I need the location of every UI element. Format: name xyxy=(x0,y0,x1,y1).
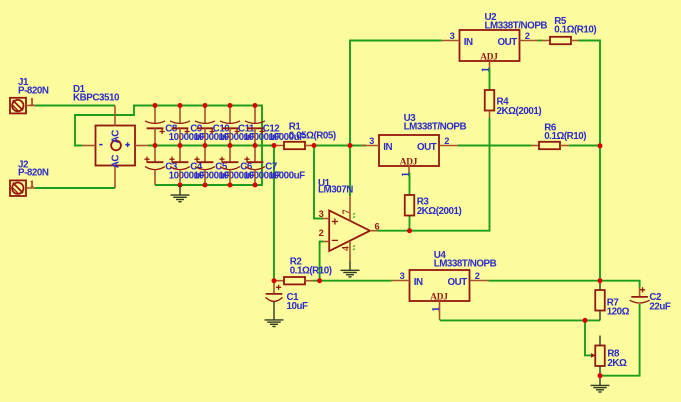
svg-text:IN: IN xyxy=(383,142,392,153)
svg-text:IN: IN xyxy=(464,37,473,48)
svg-text:2KΩ: 2KΩ xyxy=(607,358,627,369)
svg-text:0.1Ω(R10): 0.1Ω(R10) xyxy=(544,131,586,142)
svg-text:1: 1 xyxy=(30,97,35,108)
svg-text:1: 1 xyxy=(481,67,492,72)
svg-text:AC: AC xyxy=(111,155,122,169)
svg-text:OUT: OUT xyxy=(497,37,517,48)
svg-text:7: 7 xyxy=(341,209,352,214)
svg-text:0.1Ω(R10): 0.1Ω(R10) xyxy=(290,266,332,277)
svg-text:OUT: OUT xyxy=(417,142,437,153)
svg-text:1: 1 xyxy=(431,307,442,312)
svg-text:2KΩ(2001): 2KΩ(2001) xyxy=(497,106,542,117)
svg-text:LM338T/NOPB: LM338T/NOPB xyxy=(434,259,497,270)
svg-text:120Ω: 120Ω xyxy=(607,307,630,318)
svg-text:3: 3 xyxy=(319,209,324,219)
svg-text:6: 6 xyxy=(375,221,380,231)
svg-text:4: 4 xyxy=(340,246,351,251)
svg-text:2: 2 xyxy=(319,228,324,238)
svg-text:22uF: 22uF xyxy=(649,301,671,312)
svg-text:LM307N: LM307N xyxy=(318,185,353,196)
svg-text:10uF: 10uF xyxy=(287,301,309,312)
svg-text:1: 1 xyxy=(30,179,35,190)
svg-text:2KΩ(2001): 2KΩ(2001) xyxy=(417,206,462,217)
svg-text:LM338T/NOPB: LM338T/NOPB xyxy=(404,122,467,133)
svg-text:0.1Ω(R10): 0.1Ω(R10) xyxy=(554,25,596,36)
svg-text:P-820N: P-820N xyxy=(18,85,49,96)
svg-text:1: 1 xyxy=(401,172,412,177)
svg-text:AC: AC xyxy=(111,130,122,144)
svg-text:OUT: OUT xyxy=(447,277,467,288)
svg-text:IN: IN xyxy=(414,277,423,288)
svg-text:0.05Ω(R05): 0.05Ω(R05) xyxy=(289,130,336,141)
svg-text:10000uF: 10000uF xyxy=(269,170,306,181)
svg-text:LM338T/NOPB: LM338T/NOPB xyxy=(485,21,548,32)
svg-text:P-820N: P-820N xyxy=(18,168,49,179)
svg-text:KBPC3510: KBPC3510 xyxy=(73,92,120,103)
